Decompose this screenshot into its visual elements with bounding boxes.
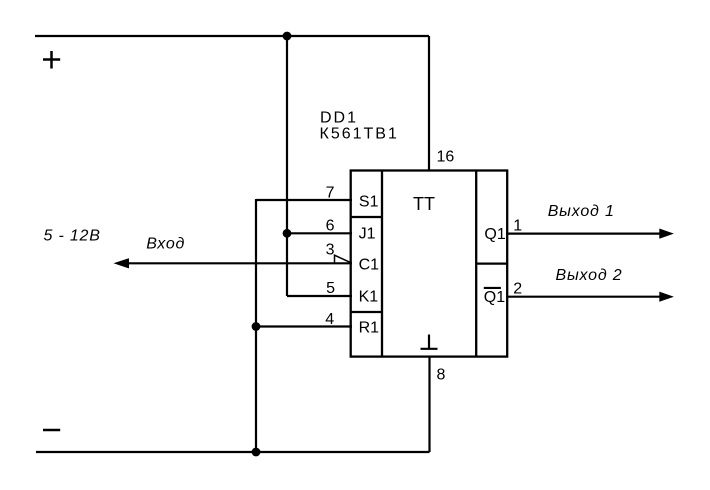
svg-text:TT: TT [413,194,435,214]
svg-text:4: 4 [325,311,334,328]
svg-text:5 - 12В: 5 - 12В [44,227,101,244]
svg-text:DD1: DD1 [320,109,358,126]
svg-text:S1: S1 [359,194,379,211]
svg-text:3: 3 [326,241,335,258]
svg-text:К561ТВ1: К561ТВ1 [320,125,399,142]
svg-text:5: 5 [326,280,335,297]
svg-text:Q1: Q1 [484,289,505,306]
svg-text:Вход: Вход [146,235,185,252]
svg-text:6: 6 [326,218,335,235]
svg-text:R1: R1 [359,319,380,336]
svg-text:1: 1 [513,218,522,235]
svg-text:Q1: Q1 [484,226,505,243]
svg-text:C1: C1 [359,257,380,274]
svg-text:J1: J1 [359,226,376,243]
svg-text:Выход 1: Выход 1 [548,203,615,220]
svg-text:K1: K1 [359,289,379,306]
svg-text:Выход 2: Выход 2 [556,267,623,284]
svg-text:16: 16 [437,149,455,166]
svg-text:2: 2 [513,281,522,298]
svg-text:8: 8 [437,367,446,384]
svg-text:7: 7 [326,185,335,202]
